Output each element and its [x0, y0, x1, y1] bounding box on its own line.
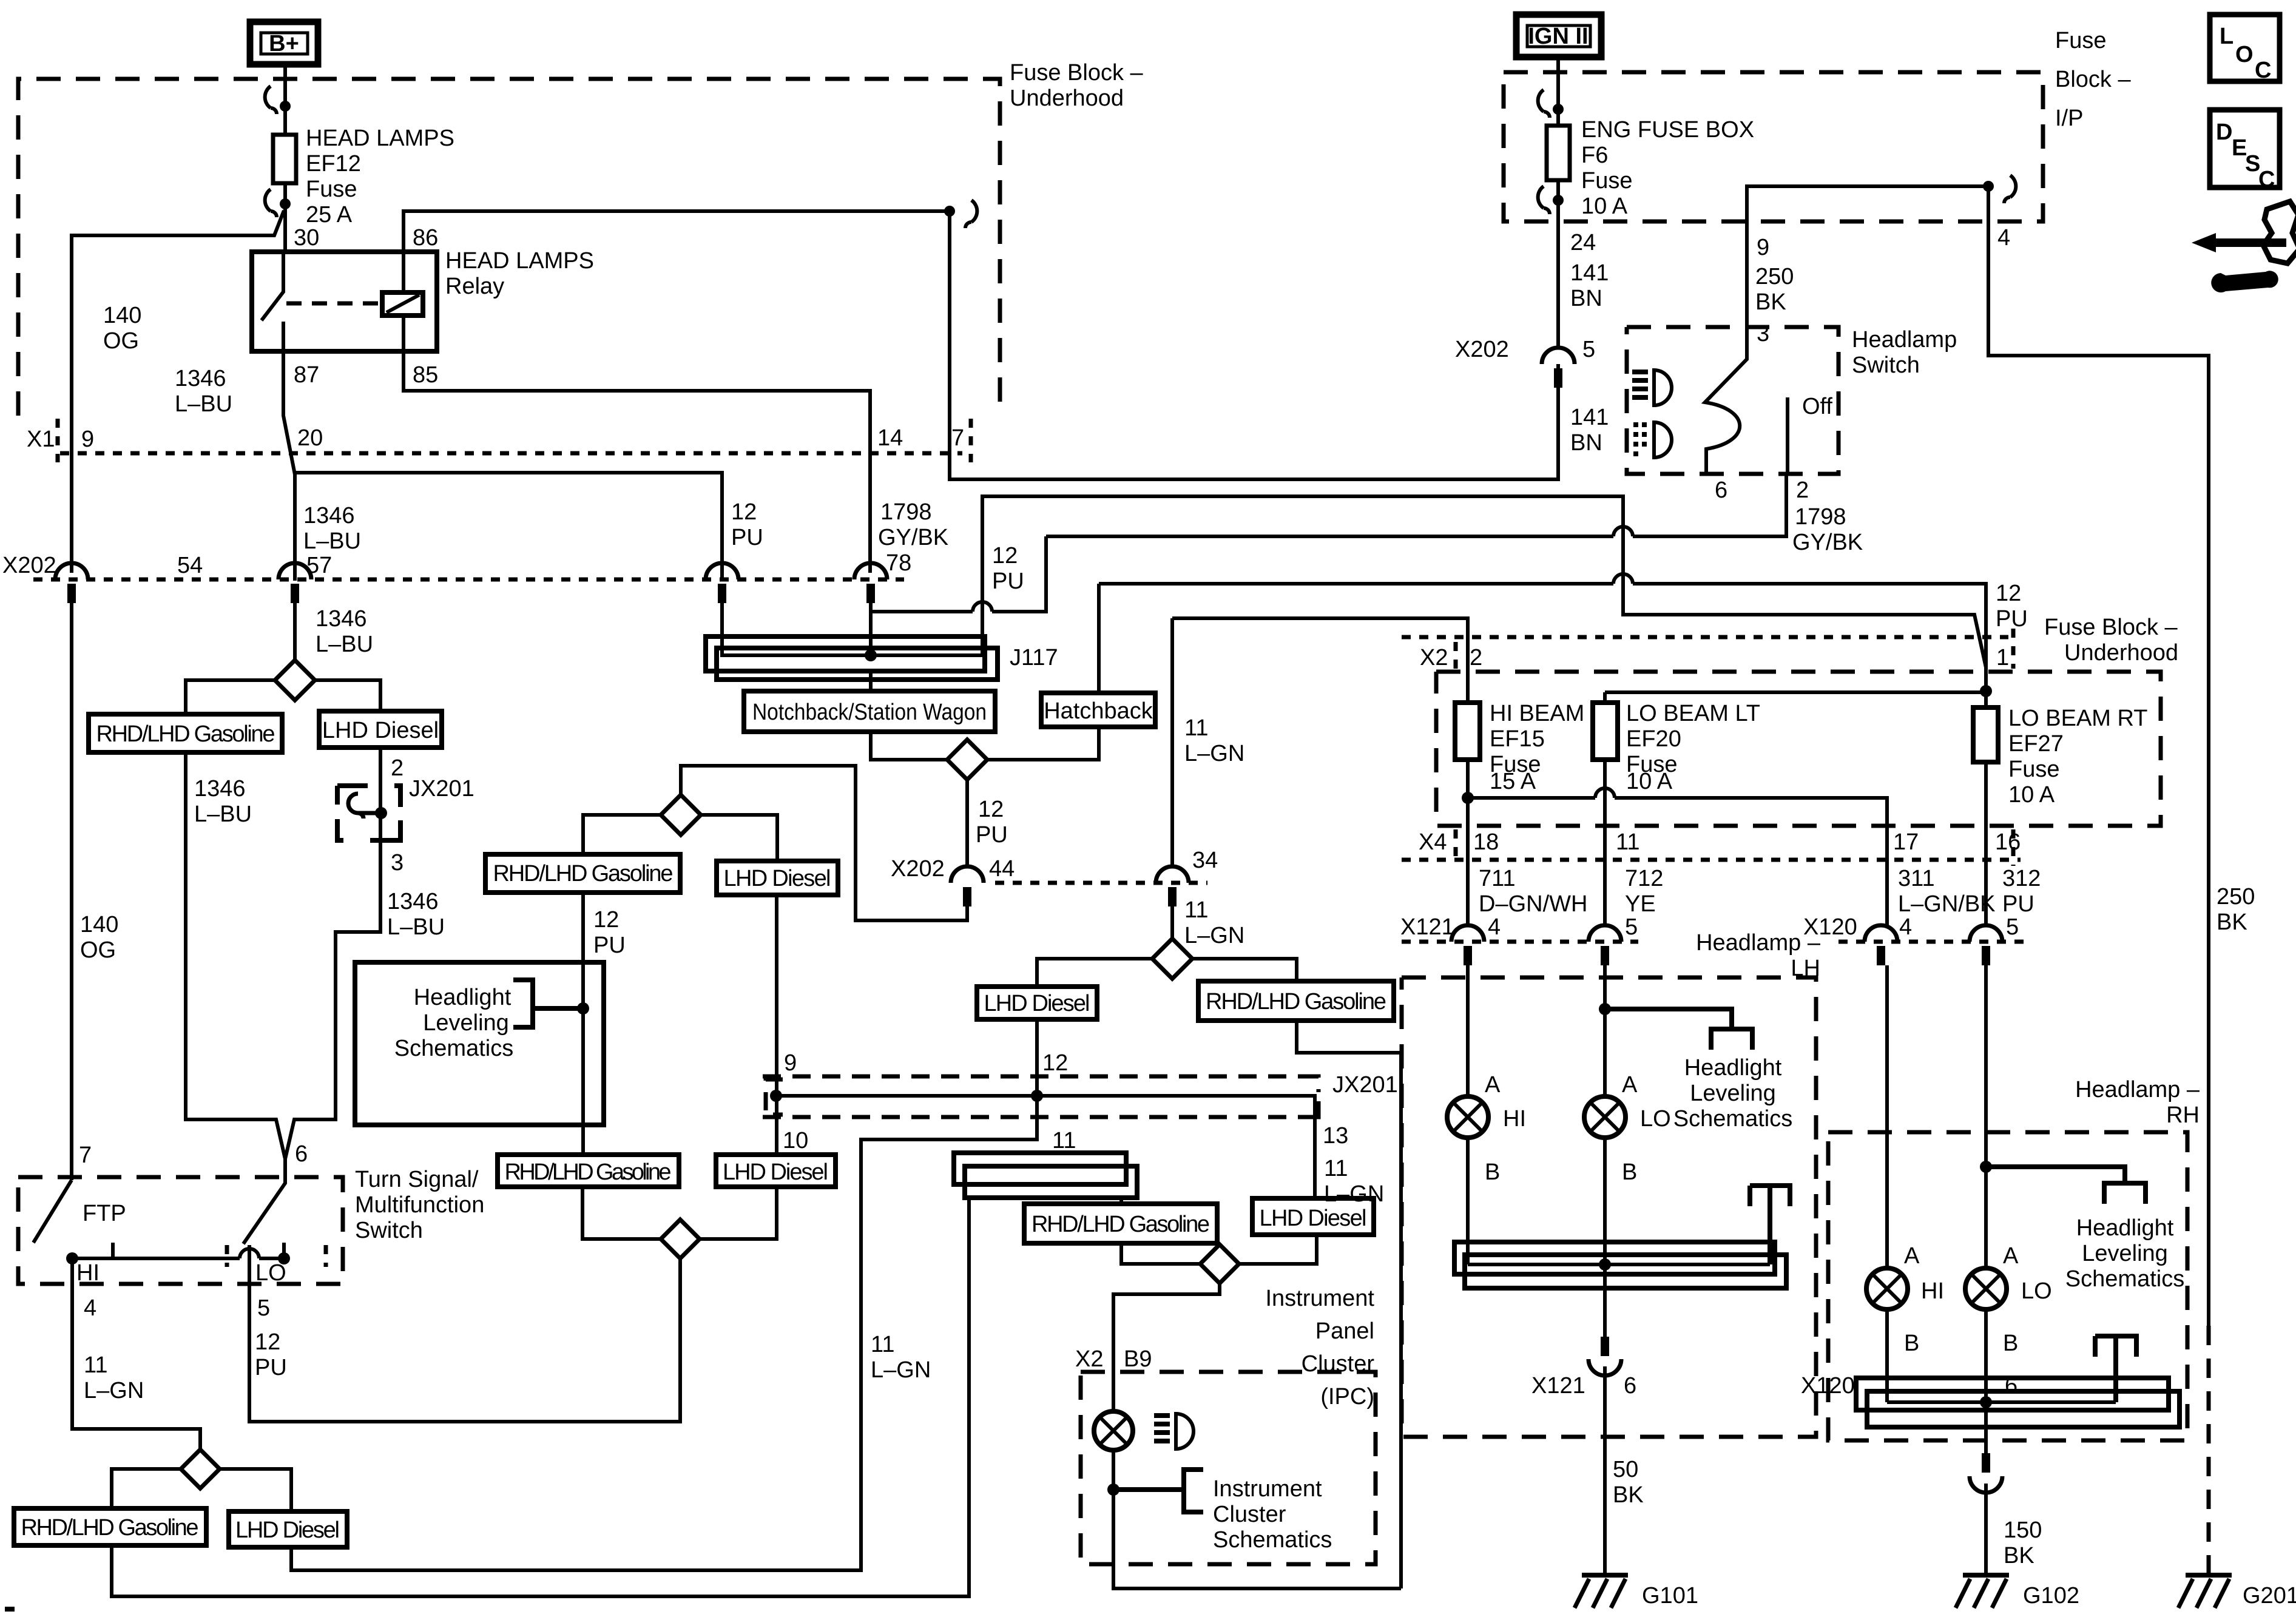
label Headlight Leveling Schematics RH — [2065, 1215, 2184, 1292]
svg-text:L–BU: L–BU — [303, 528, 361, 554]
svg-text:5: 5 — [257, 1295, 270, 1321]
svg-text:140: 140 — [103, 303, 141, 328]
leveling bracket left box — [513, 980, 589, 1027]
svg-text:12: 12 — [731, 499, 757, 525]
svg-text:24: 24 — [1570, 230, 1596, 255]
svg-text:10 A: 10 A — [1626, 769, 1673, 794]
svg-text:87: 87 — [294, 362, 319, 388]
svg-text:LHD Diesel: LHD Diesel — [322, 718, 439, 743]
svg-text:Fuse Block –: Fuse Block – — [2044, 615, 2178, 640]
splice diamond 11 L-GN variants — [1152, 939, 1192, 979]
RH HI bulb — [1866, 1268, 1908, 1309]
HI contact tick — [111, 1243, 115, 1260]
label 12 PU above pin12 — [731, 499, 763, 550]
ground G102 — [1956, 1575, 2079, 1609]
hop 1798 over 12PU at J117 — [973, 602, 992, 612]
svg-text:5: 5 — [1582, 337, 1595, 362]
svg-text:HI BEAM: HI BEAM — [1490, 701, 1584, 726]
svg-text:X2: X2 — [1420, 645, 1448, 670]
svg-text:BN: BN — [1570, 430, 1602, 456]
IGN II box — [1516, 15, 1601, 57]
wire EF20 output down — [1603, 760, 1607, 926]
svg-text:LO: LO — [255, 1260, 286, 1286]
wire relay pin86 coil to junction — [403, 211, 950, 292]
svg-text:Switch: Switch — [1852, 353, 1920, 378]
IPC high beam indicator bulb — [1094, 1411, 1133, 1450]
Fuse Block I/P dashed box — [1504, 72, 2043, 221]
svg-text:Underhood: Underhood — [2064, 640, 2178, 666]
LH bus bar — [1454, 1242, 1786, 1288]
svg-text:D: D — [2216, 120, 2232, 145]
label 12 PU pin1 — [1996, 581, 2028, 632]
svg-text:85: 85 — [413, 362, 438, 388]
headlamp switch rotary arm — [1705, 327, 1747, 474]
svg-text:PU: PU — [593, 933, 626, 958]
svg-text:Headlight: Headlight — [2076, 1215, 2174, 1241]
ground G101 — [1575, 1575, 1698, 1609]
label 250 BK right edge — [2217, 884, 2255, 935]
label HEAD LAMPS EF12 Fuse 25 A — [306, 126, 454, 228]
svg-text:18: 18 — [1473, 829, 1499, 855]
svg-text:12: 12 — [992, 543, 1018, 569]
svg-text:LO: LO — [2021, 1278, 2052, 1304]
svg-text:PU: PU — [2002, 891, 2034, 917]
label 12 PU pin44 — [976, 797, 1008, 848]
labels X202 44 — [891, 856, 1015, 882]
svg-text:10 A: 10 A — [1581, 194, 1628, 219]
svg-text:B9: B9 — [1124, 1346, 1152, 1372]
fuse EF12 body — [273, 135, 296, 183]
wire diesel bottom to JX201 pin11 riser — [291, 1099, 1037, 1570]
svg-text:Underhood: Underhood — [1010, 86, 1124, 111]
labels X121 6 — [1531, 1373, 1636, 1399]
X202 connector row 54/57/12/78 dashed — [33, 578, 904, 582]
svg-text:Switch: Switch — [355, 1218, 423, 1243]
wire gasoline 1346 down to turn signal — [186, 752, 285, 1159]
svg-text:57: 57 — [306, 553, 332, 578]
X1 bracket marks — [58, 419, 971, 462]
LH leveling bracket 2 — [1750, 1186, 1790, 1264]
JX201 inline connector dashed box — [337, 786, 400, 840]
switch internal wire HI to pin5 — [66, 1249, 290, 1264]
label 1798 GY/BK above pin78 — [878, 499, 948, 550]
wire LH bus output to X121 pin6 — [1603, 1264, 1607, 1337]
svg-text:GY/BK: GY/BK — [1792, 530, 1863, 555]
svg-text:2: 2 — [1470, 645, 1482, 670]
svg-text:11: 11 — [84, 1352, 107, 1378]
X2 connector dotted row — [1402, 635, 2008, 640]
labels A LO B for RH LO — [2003, 1243, 2052, 1356]
wire into IPC bulb — [1112, 1372, 1115, 1411]
svg-text:15 A: 15 A — [1490, 769, 1536, 794]
svg-text:HI: HI — [1503, 1106, 1526, 1132]
wire Hatchback to diamond — [987, 727, 1099, 760]
wire X202-5 down (fed from y790 line) — [1556, 388, 1560, 479]
label 12 PU pin5 — [255, 1329, 287, 1380]
corner mark bottom left — [5, 1607, 15, 1612]
X2 bracket marks — [1456, 629, 2013, 669]
wire gasoline 12PU down through leveling box — [581, 893, 585, 1155]
svg-text:B: B — [2003, 1331, 2018, 1356]
hop 1798 over 12PU riser — [1613, 527, 1633, 536]
wire diamond to IPC B9 — [1113, 1283, 1220, 1372]
wire pin4 output — [72, 1258, 200, 1450]
svg-text:3: 3 — [1757, 321, 1769, 346]
svg-text:A: A — [2003, 1243, 2019, 1269]
label Headlight Leveling Schematics LH — [1673, 1055, 1792, 1132]
svg-text:L–GN: L–GN — [1184, 741, 1244, 766]
svg-text:16: 16 — [1995, 829, 2021, 855]
wire pin78 1798 net to switch pin2 — [871, 474, 1786, 612]
X202 pin78 connector — [854, 563, 887, 603]
box LHD Diesel mid — [716, 1155, 836, 1187]
LO switch arm from pin6 — [243, 1159, 285, 1244]
relay box HEAD LAMPS — [252, 252, 437, 351]
svg-text:250: 250 — [2217, 884, 2255, 910]
JX201 pin stubs 9 10 12 11 — [777, 1076, 1037, 1099]
svg-text:Off: Off — [1802, 394, 1832, 419]
wire diamond3 to LHD Diesel box — [1037, 959, 1152, 987]
svg-text:PU: PU — [731, 525, 763, 550]
wire X202-57 to diamond — [293, 603, 297, 660]
svg-text:EF27: EF27 — [2008, 731, 2064, 757]
box RHD/LHD Gasoline (11 L-GN) — [1198, 981, 1394, 1021]
Headlight Leveling Schematics box left — [355, 962, 604, 1125]
svg-text:LHD Diesel: LHD Diesel — [235, 1517, 340, 1543]
svg-text:11: 11 — [1184, 715, 1208, 741]
Fuse Block Underhood 2 dashed box — [1436, 672, 2161, 826]
hop 12PU hatchback over riser — [1613, 574, 1633, 584]
svg-text:11: 11 — [871, 1332, 894, 1357]
svg-text:Headlight: Headlight — [414, 985, 512, 1010]
wire 150 BK to G102 — [1984, 1484, 1988, 1575]
svg-text:9: 9 — [81, 427, 94, 452]
wire 12PU from J117 up and right — [982, 496, 1986, 667]
svg-text:12: 12 — [1996, 581, 2021, 606]
ground G201 — [2178, 1575, 2296, 1609]
svg-text:4: 4 — [1997, 225, 2010, 251]
svg-text:JX201: JX201 — [409, 776, 474, 802]
svg-text:7: 7 — [79, 1143, 92, 1168]
svg-text:LO BEAM LT: LO BEAM LT — [1626, 701, 1760, 726]
svg-text:(IPC): (IPC) — [1320, 1384, 1374, 1409]
svg-text:3: 3 — [391, 850, 403, 876]
label Fuse Block - Underhood — [1010, 60, 1144, 111]
wires LH bulbs B to bus — [1468, 1138, 1605, 1264]
Headlamp LH dashed box — [1402, 977, 1816, 1437]
svg-text:12: 12 — [255, 1329, 280, 1355]
svg-text:FTP: FTP — [83, 1201, 126, 1226]
svg-text:G101: G101 — [1642, 1583, 1698, 1609]
svg-text:X202: X202 — [1455, 337, 1509, 362]
svg-text:14: 14 — [877, 425, 903, 451]
wire diamond3 to RHD/LHD Gasoline box — [1192, 959, 1297, 981]
svg-text:6: 6 — [295, 1141, 308, 1167]
svg-text:Schematics: Schematics — [1213, 1527, 1332, 1553]
JX201 connector hook and dot — [348, 794, 387, 819]
headlamp switch Off contact — [1786, 397, 1789, 474]
svg-text:Multifunction: Multifunction — [355, 1192, 484, 1218]
LH HI bulb — [1447, 1096, 1488, 1138]
svg-text:BN: BN — [1570, 286, 1602, 311]
label 1346 L-BU diesel — [387, 889, 445, 940]
wire LHD Diesel IPC box to diamond — [1239, 1235, 1317, 1264]
label Fuse Block I/P — [2055, 28, 2131, 131]
wire JX201 pin13 to LHD Diesel IPC box — [1313, 1096, 1317, 1198]
box Notchback/Station Wagon — [744, 691, 995, 732]
box RHD/LHD Gasoline (1346) — [89, 714, 282, 752]
svg-text:JX201: JX201 — [1332, 1072, 1398, 1098]
wire diamond to LHD Diesel 12PU box — [701, 815, 777, 861]
label HEAD LAMPS Relay — [445, 248, 594, 299]
svg-text:RHD/LHD Gasoline: RHD/LHD Gasoline — [1206, 989, 1386, 1014]
X202 pin12 connector — [706, 563, 738, 603]
box RHD/LHD Gasoline mid — [498, 1155, 679, 1187]
svg-text:X2: X2 — [1075, 1346, 1103, 1372]
X1 connector short-dash row — [60, 451, 962, 456]
label 140 OG lower — [80, 912, 118, 963]
svg-text:Notchback/Station Wagon: Notchback/Station Wagon — [752, 700, 987, 725]
splice diamond body style (12PU) — [947, 740, 987, 780]
wire pin34 to diamond3 — [1170, 906, 1174, 939]
svg-text:PU: PU — [1996, 606, 2028, 632]
wire junction down to X1 pin7 and right — [950, 211, 1558, 479]
svg-text:1798: 1798 — [1795, 504, 1846, 530]
svg-text:44: 44 — [989, 856, 1015, 882]
wire diamond to RHD/LHD Gasoline bottom box — [112, 1469, 181, 1508]
splice diamond 12PU variants — [661, 795, 701, 835]
svg-text:54: 54 — [177, 553, 203, 578]
label 11 L-GN above pin34 — [1184, 715, 1244, 766]
X120 pin6 connector — [1970, 1453, 2002, 1493]
wire 50 BK to G101 — [1603, 1366, 1607, 1575]
svg-text:712: 712 — [1625, 866, 1663, 891]
svg-text:Leveling: Leveling — [2082, 1241, 2168, 1266]
box RHD/LHD Gasoline (12PU) — [485, 854, 680, 893]
labels 9 12 10 11 — [783, 1050, 1076, 1153]
labels HI LO — [76, 1260, 286, 1286]
wire RH bus output to X120 pin6 — [1984, 1402, 1988, 1453]
label 24 141 BN — [1570, 230, 1609, 311]
svg-text:C: C — [2255, 58, 2271, 83]
label Headlamp - LH — [1696, 930, 1821, 981]
wire diamond to LHD Diesel bottom box — [220, 1469, 291, 1511]
svg-text:11: 11 — [1052, 1128, 1076, 1153]
fuse HI BEAM EF15 — [1455, 701, 1584, 794]
X202 pin44 connector — [951, 866, 984, 906]
wire relay pin85 to X1 pin14 down to X202 pin78 — [403, 316, 870, 573]
svg-text:6: 6 — [2005, 1373, 2017, 1399]
svg-text:F6: F6 — [1581, 143, 1608, 168]
wire pin78 into J117 — [869, 612, 873, 655]
svg-text:B: B — [1485, 1160, 1500, 1185]
svg-text:Headlamp –: Headlamp – — [2075, 1077, 2200, 1102]
wire pin9 from LHD Diesel 12PU box — [775, 895, 778, 1096]
svg-text:4: 4 — [1899, 914, 1912, 940]
relay coil link dashed — [286, 302, 381, 306]
svg-text:9: 9 — [1757, 235, 1769, 260]
svg-text:L–GN: L–GN — [1184, 923, 1244, 948]
svg-text:EF12: EF12 — [306, 151, 361, 177]
Instrument Panel Cluster dashed box — [1081, 1372, 1376, 1564]
svg-text:1: 1 — [1996, 645, 2009, 670]
svg-text:311: 311 — [1898, 866, 1935, 891]
wire diamond to RHD/LHD Gasoline 12PU box — [583, 815, 661, 854]
X121 pin6 connector — [1589, 1337, 1621, 1376]
svg-text:HI: HI — [76, 1260, 100, 1286]
svg-text:J117: J117 — [1010, 645, 1058, 670]
svg-text:150: 150 — [2004, 1517, 2042, 1543]
IPC beam icon — [1154, 1414, 1194, 1449]
label 1798 GY/BK switch output — [1792, 504, 1863, 555]
Fuse Block - Underhood dashed box — [18, 79, 1000, 416]
svg-text:X202: X202 — [891, 856, 945, 882]
svg-text:50: 50 — [1613, 1457, 1638, 1482]
svg-text:Leveling: Leveling — [423, 1010, 509, 1036]
svg-text:X121: X121 — [1531, 1373, 1585, 1399]
labels A LO B for LH LO — [1622, 1072, 1671, 1185]
switch bracket dashes — [227, 1245, 326, 1267]
X120 connector row pins 4 5 — [1838, 925, 2027, 965]
svg-text:RHD/LHD Gasoline: RHD/LHD Gasoline — [493, 861, 674, 886]
box LHD Diesel (1346) — [319, 711, 442, 748]
svg-text:11: 11 — [1616, 829, 1639, 855]
label 12 PU gasoline riser — [593, 907, 626, 958]
svg-text:LO: LO — [1640, 1106, 1671, 1132]
svg-text:11: 11 — [1324, 1156, 1348, 1181]
wire 712 to LH LO bulb with leveling tap — [1599, 965, 1611, 1096]
svg-text:Headlamp –: Headlamp – — [1696, 930, 1821, 956]
svg-text:9: 9 — [784, 1050, 797, 1076]
labels A HI B for LH HI — [1485, 1072, 1526, 1185]
svg-text:RH: RH — [2166, 1102, 2200, 1128]
relay pin labels 30 86 87 85 — [294, 225, 438, 388]
splice diamond pin4 variants — [181, 1450, 220, 1488]
wire relay pin87 to X1 pin20 — [283, 351, 295, 581]
labels 711 D-GN/WH 712 YE 311 L-GN/BK 312 PU — [1479, 866, 2041, 917]
svg-text:RHD/LHD Gasoline: RHD/LHD Gasoline — [96, 721, 275, 747]
wire pin44 to gasoline/diesel diamond — [681, 766, 967, 920]
fuse LO BEAM LT EF20 — [1593, 701, 1760, 794]
labels 7 6 above switch — [79, 1141, 308, 1168]
junction dot I/P bus — [1983, 181, 1994, 192]
svg-text:12: 12 — [593, 907, 619, 933]
svg-text:L–BU: L–BU — [194, 802, 252, 827]
svg-text:BK: BK — [2004, 1543, 2034, 1568]
svg-text:Schematics: Schematics — [394, 1036, 513, 1061]
labels X120 4 5 — [1803, 914, 2019, 940]
label ENG FUSE BOX F6 Fuse 10 A — [1581, 117, 1754, 219]
X202 pin57 connector — [279, 563, 311, 603]
RH leveling tap wire and bracket — [1986, 1167, 2146, 1204]
svg-text:6: 6 — [1715, 478, 1727, 503]
wire fuse to 140 OG branch — [72, 211, 284, 573]
svg-text:Instrument: Instrument — [1265, 1286, 1374, 1311]
svg-text:BK: BK — [2217, 910, 2247, 935]
svg-text:LHD Diesel: LHD Diesel — [1260, 1206, 1367, 1231]
svg-text:BK: BK — [1755, 289, 1786, 315]
labels X2 B9 — [1075, 1346, 1152, 1372]
labels X121 4 5 — [1400, 914, 1638, 940]
svg-text:IGN II: IGN II — [1528, 24, 1588, 49]
LOC box — [2210, 15, 2280, 83]
label 141 BN lower — [1570, 405, 1609, 456]
X202 row labels — [2, 550, 911, 578]
LH bus internal wire and dot — [1468, 1258, 1770, 1271]
wire diamond to RHD/LHD Gasoline box — [186, 680, 275, 714]
headlamp switch high beam icon — [1632, 370, 1672, 405]
RH bus bar — [1856, 1378, 2180, 1427]
svg-text:141: 141 — [1570, 260, 1609, 286]
svg-text:LO BEAM RT: LO BEAM RT — [2008, 706, 2147, 731]
svg-text:140: 140 — [80, 912, 118, 937]
svg-text:ENG FUSE BOX: ENG FUSE BOX — [1581, 117, 1754, 143]
label Instrument Panel Cluster (IPC) — [1265, 1286, 1374, 1409]
X121 connector row pins 4 5 — [1402, 925, 1638, 965]
svg-text:Fuse: Fuse — [1581, 168, 1632, 194]
svg-text:13: 13 — [1323, 1123, 1348, 1149]
fuse block clip right of junction — [965, 200, 977, 228]
svg-text:Schematics: Schematics — [1673, 1106, 1792, 1132]
wire B+ to fuse EF12 — [283, 64, 287, 252]
wire 140 OG continues (X202-54 to FTP pin7) — [70, 603, 73, 1180]
svg-text:1798: 1798 — [880, 499, 932, 525]
label Headlamp - RH — [2075, 1077, 2200, 1128]
svg-text:1346: 1346 — [387, 889, 439, 914]
svg-text:X120: X120 — [1801, 1373, 1855, 1399]
svg-text:EF20: EF20 — [1626, 726, 1681, 752]
RH leveling bracket 2 — [2095, 1336, 2136, 1402]
battery feed B+ box — [250, 22, 318, 64]
wire Notchback to diamond — [871, 732, 947, 760]
label 1346 L-BU below 57 — [316, 606, 373, 657]
wire 711 to LH HI bulb — [1466, 965, 1470, 1096]
LH leveling tap wire and bracket — [1605, 1009, 1752, 1050]
wire 312 to RH LO bulb with leveling tap — [1980, 965, 1992, 1268]
box LHD Diesel (12PU) — [717, 861, 838, 895]
svg-text:30: 30 — [294, 225, 319, 251]
svg-text:2: 2 — [391, 755, 403, 781]
svg-text:OG: OG — [80, 937, 116, 963]
X4 bracket marks — [1456, 829, 2013, 866]
JX201 left bracket — [766, 1079, 783, 1115]
wires RH bulbs B to bus — [1887, 1309, 1986, 1402]
fuse F6 body — [1547, 126, 1570, 180]
svg-text:17: 17 — [1893, 829, 1919, 855]
wire RHD Gasoline IPC box to diamond — [1121, 1243, 1200, 1264]
label 50 BK — [1613, 1457, 1644, 1508]
wire X202-34 riser and diamond3 — [1170, 618, 1174, 866]
box RHD/LHD Gasoline IPC — [1024, 1204, 1217, 1243]
svg-text:B: B — [1622, 1160, 1637, 1185]
headlamp switch low beam icon — [1633, 422, 1672, 457]
wire pin5 output 12PU — [249, 1245, 680, 1422]
junction dot pin86 wire — [944, 206, 955, 217]
service icon arrow and wrench — [2192, 201, 2296, 292]
svg-text:711: 711 — [1479, 866, 1516, 891]
svg-text:12: 12 — [1042, 1050, 1068, 1076]
splice diamond body style (1346) — [275, 660, 315, 700]
svg-text:GY/BK: GY/BK — [878, 525, 948, 550]
svg-text:PU: PU — [255, 1355, 287, 1380]
svg-text:X1: X1 — [27, 427, 55, 452]
svg-text:RHD/LHD Gasoline: RHD/LHD Gasoline — [21, 1515, 199, 1541]
wire EF15 output with junction — [1462, 760, 1474, 926]
svg-text:B: B — [1904, 1331, 1919, 1356]
fuse clip top — [265, 86, 291, 114]
box RHD/LHD Gasoline bottom — [14, 1508, 206, 1545]
JX201 bus wire — [770, 1090, 1315, 1102]
